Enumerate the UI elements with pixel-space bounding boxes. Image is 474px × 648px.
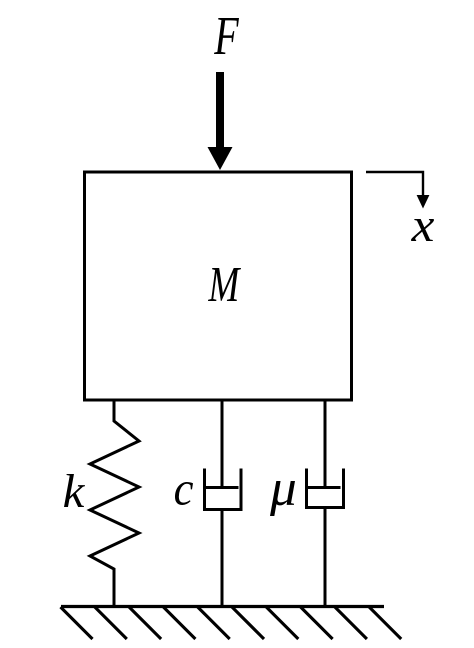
- damper c: [205, 399, 242, 607]
- friction mu label: [270, 481, 295, 516]
- force F arrow: [208, 72, 233, 170]
- spring k: [90, 399, 139, 607]
- displacement x label: [411, 219, 434, 241]
- mass M box: [85, 172, 352, 400]
- ground hatching: [61, 607, 402, 639]
- spring k label: [64, 474, 85, 507]
- displacement x indicator arrow: [366, 172, 429, 209]
- damper c label: [175, 482, 193, 505]
- mass M label: [208, 268, 241, 301]
- force F label: [214, 18, 239, 54]
- friction element mu: [307, 399, 344, 607]
- ground line: [61, 605, 384, 608]
